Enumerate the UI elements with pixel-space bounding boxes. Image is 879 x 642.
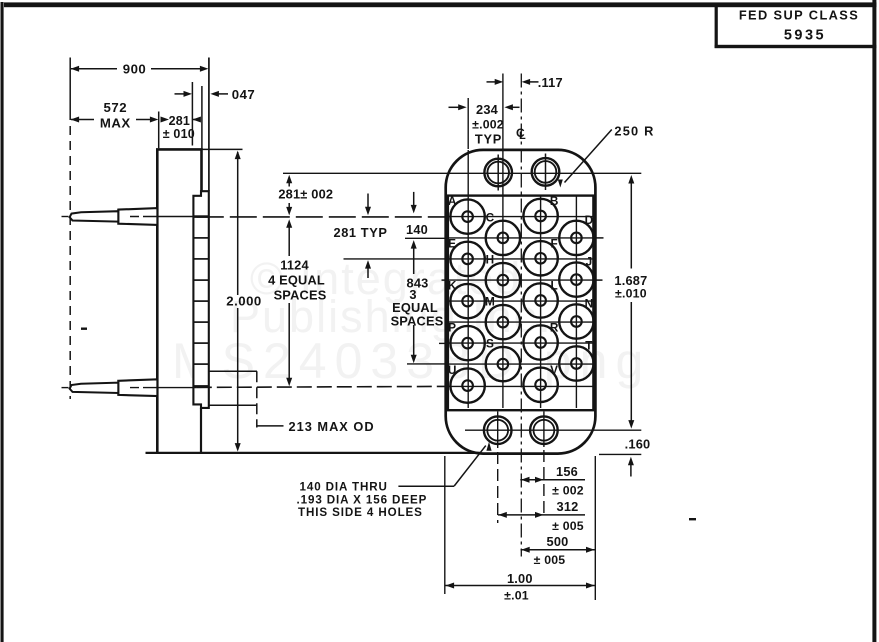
contact pin (bottom, side view) blade bbox=[70, 383, 119, 393]
svg-text:1.00: 1.00 bbox=[507, 571, 533, 586]
row E extension line bbox=[344, 258, 448, 260]
row line 5 bbox=[449, 321, 594, 323]
insert strip (side view) bbox=[193, 191, 208, 408]
contact pin N (face view) bbox=[559, 304, 593, 338]
svg-text:900: 900 bbox=[123, 62, 147, 77]
bottom mounting hole (right) bbox=[530, 416, 558, 444]
svg-text:213 MAX OD: 213 MAX OD bbox=[289, 419, 375, 434]
contact pin L (face view) bbox=[523, 283, 557, 317]
svg-text:L: L bbox=[550, 279, 557, 293]
column centerline D bbox=[575, 196, 577, 408]
row C extension line bbox=[405, 237, 447, 239]
watermark bbox=[172, 253, 651, 389]
svg-text:THIS SIDE 4 HOLES: THIS SIDE 4 HOLES bbox=[298, 506, 423, 519]
dimension .234 +/-.002 TYP bbox=[449, 106, 461, 108]
svg-text:± 005: ± 005 bbox=[552, 519, 584, 533]
svg-text:FED SUP CLASS: FED SUP CLASS bbox=[739, 8, 859, 23]
contact pin T (face view) bbox=[559, 346, 593, 380]
dimension .156 +/-.002 bbox=[520, 479, 585, 481]
svg-text:±.01: ±.01 bbox=[504, 589, 529, 603]
contact pin (top, side view) ferrule bbox=[118, 208, 157, 225]
connector body (side view) bbox=[157, 149, 201, 452]
contact pin U (face view) bbox=[450, 368, 484, 402]
dimension .117 bbox=[487, 81, 497, 83]
title box FED SUP CLASS 5935 bbox=[715, 5, 718, 48]
svg-text:J: J bbox=[586, 255, 593, 269]
column centerline A bbox=[467, 98, 469, 149]
dimension .160 bbox=[628, 457, 634, 466]
svg-text:± 002: ± 002 bbox=[552, 484, 584, 498]
bottom edge extension (right) bbox=[599, 453, 641, 455]
centerline symbol bbox=[516, 126, 526, 142]
contact pin P (face view) bbox=[450, 326, 484, 360]
left extension line (dashed vertical) bbox=[69, 58, 71, 112]
svg-text:SPACES: SPACES bbox=[391, 314, 444, 329]
svg-text:±.002: ±.002 bbox=[472, 118, 504, 132]
dimension .843 / 3 EQUAL SPACES bbox=[411, 240, 417, 249]
contact pin F (face view) bbox=[523, 241, 557, 275]
leader .213 MAX OD bbox=[210, 370, 258, 372]
dimension .900 bbox=[71, 66, 80, 72]
svg-text:± 005: ± 005 bbox=[534, 553, 566, 567]
svg-text:140 DIA THRU: 140 DIA THRU bbox=[300, 481, 388, 494]
svg-text:1124: 1124 bbox=[280, 258, 309, 273]
svg-text:.193 DIA X 156 DEEP: .193 DIA X 156 DEEP bbox=[297, 494, 428, 507]
svg-text:MAX: MAX bbox=[100, 115, 131, 130]
dimension 2.000 bbox=[202, 148, 243, 150]
extension line face left edge (below) bbox=[444, 456, 446, 594]
row line 8 bbox=[449, 385, 594, 387]
contact pin J (face view) bbox=[559, 262, 593, 296]
contact pin E (face view) bbox=[450, 242, 484, 276]
dimension .572 MAX bbox=[71, 117, 80, 123]
leader 140 DIA THRU bbox=[398, 485, 454, 487]
contact pin C (face view) bbox=[486, 221, 520, 255]
row line 6 bbox=[449, 342, 594, 344]
contact pin M (face view) bbox=[486, 305, 520, 339]
extension line face right edge (below) bbox=[594, 456, 596, 600]
face view outline (rounded rectangle, 250 R corners) bbox=[446, 150, 596, 454]
svg-text:H: H bbox=[486, 253, 495, 267]
extension lines (top-left dims) bbox=[158, 112, 160, 149]
dimension 1.124 / 4 EQUAL SPACES bbox=[286, 219, 292, 228]
row line 2 bbox=[449, 258, 594, 260]
column centerline C bbox=[502, 74, 504, 409]
contact pin K (face view) bbox=[450, 284, 484, 318]
svg-text:4 EQUAL: 4 EQUAL bbox=[268, 273, 325, 288]
contact pin (bottom, side view) ferrule bbox=[118, 379, 157, 396]
svg-text:L: L bbox=[519, 130, 526, 142]
dimension .500 +/-.005 bbox=[521, 549, 595, 551]
contact pin R (face view) bbox=[523, 325, 557, 359]
svg-text:R: R bbox=[550, 321, 559, 335]
bottom edge line (body bottom + extension to face view) bbox=[146, 452, 481, 454]
contact pin D (face view) bbox=[559, 221, 593, 255]
svg-text:N: N bbox=[585, 297, 594, 311]
row H extension stub (left) bbox=[442, 279, 448, 281]
row line 3 bbox=[449, 279, 594, 281]
svg-text:V: V bbox=[550, 363, 558, 377]
svg-text:B: B bbox=[550, 194, 559, 208]
top mounting hole (left) bbox=[484, 159, 512, 187]
dimension .312 +/-.005 bbox=[498, 514, 585, 516]
bottom mounting hole (left) bbox=[484, 416, 512, 444]
centerline bottom pin / row U bbox=[62, 387, 69, 389]
top mounting holes centerline bbox=[283, 172, 641, 174]
svg-text:M: M bbox=[485, 295, 495, 309]
svg-text:5935: 5935 bbox=[784, 28, 826, 44]
row line 4 bbox=[449, 300, 594, 302]
svg-text:C: C bbox=[486, 210, 495, 224]
svg-text:A: A bbox=[448, 194, 457, 208]
dimension .281 +/-.002 bbox=[288, 177, 290, 187]
contact pin (top, side view) blade bbox=[70, 211, 119, 221]
svg-text:2.000: 2.000 bbox=[226, 294, 262, 309]
svg-text:±.010: ±.010 bbox=[615, 287, 647, 301]
svg-text:D: D bbox=[585, 213, 594, 227]
svg-text:500: 500 bbox=[547, 534, 569, 549]
dimension .281 +/-.010 bbox=[161, 117, 170, 123]
row line 0 bbox=[449, 216, 594, 218]
contact pin V (face view) bbox=[523, 368, 557, 402]
svg-text:572: 572 bbox=[104, 100, 128, 115]
svg-text:F: F bbox=[550, 236, 557, 250]
insert cavity segment lines bbox=[193, 215, 208, 218]
dimension 1.687 +/-.010 bbox=[628, 175, 634, 184]
svg-text:P: P bbox=[448, 321, 456, 335]
centerline top pin / row A bbox=[62, 216, 69, 218]
body rear edge below insert bbox=[200, 408, 202, 452]
contact pin B (face view) bbox=[523, 199, 557, 233]
dimension .140 bbox=[413, 192, 415, 207]
svg-text:T: T bbox=[585, 339, 593, 353]
column centerline B bbox=[540, 196, 542, 408]
insert face rectangle bbox=[448, 196, 594, 411]
svg-text:E: E bbox=[448, 236, 456, 250]
svg-text:140: 140 bbox=[406, 222, 428, 237]
svg-text:281± 002: 281± 002 bbox=[278, 187, 333, 202]
dimension .281 TYP bbox=[367, 194, 369, 209]
dimension 1.00 +/-.01 bbox=[445, 585, 595, 587]
svg-text:TYP: TYP bbox=[475, 132, 502, 147]
top mounting hole (right) bbox=[532, 158, 560, 186]
bottom mounting holes centerline bbox=[465, 429, 641, 431]
svg-text:SPACES: SPACES bbox=[274, 288, 327, 303]
dimension .047 bbox=[175, 93, 187, 95]
row D extension dash (right) bbox=[596, 237, 608, 239]
row P extension dash bbox=[439, 342, 447, 344]
svg-text:± 010: ± 010 bbox=[163, 127, 195, 141]
svg-text:K: K bbox=[448, 279, 457, 293]
contact pin A (face view) bbox=[450, 199, 484, 233]
svg-text:156: 156 bbox=[556, 464, 578, 479]
row line 1 bbox=[449, 237, 594, 239]
svg-text:234: 234 bbox=[476, 102, 499, 117]
contact pin H (face view) bbox=[486, 263, 520, 297]
svg-text:281 TYP: 281 TYP bbox=[334, 225, 388, 240]
svg-text:U: U bbox=[448, 363, 457, 377]
svg-text:.160: .160 bbox=[625, 437, 651, 452]
svg-text:250 R: 250 R bbox=[614, 123, 654, 138]
row J extension dash (right) bbox=[596, 279, 607, 281]
svg-text:312: 312 bbox=[557, 499, 579, 514]
face vertical centerline bbox=[520, 74, 522, 557]
row S extension line bbox=[407, 363, 447, 365]
contact pin S (face view) bbox=[486, 347, 520, 381]
row line 7 bbox=[449, 363, 594, 365]
svg-text:S: S bbox=[486, 337, 494, 351]
svg-text:.117: .117 bbox=[538, 75, 563, 90]
leader 250 R bbox=[565, 130, 612, 183]
svg-text:047: 047 bbox=[232, 87, 256, 102]
